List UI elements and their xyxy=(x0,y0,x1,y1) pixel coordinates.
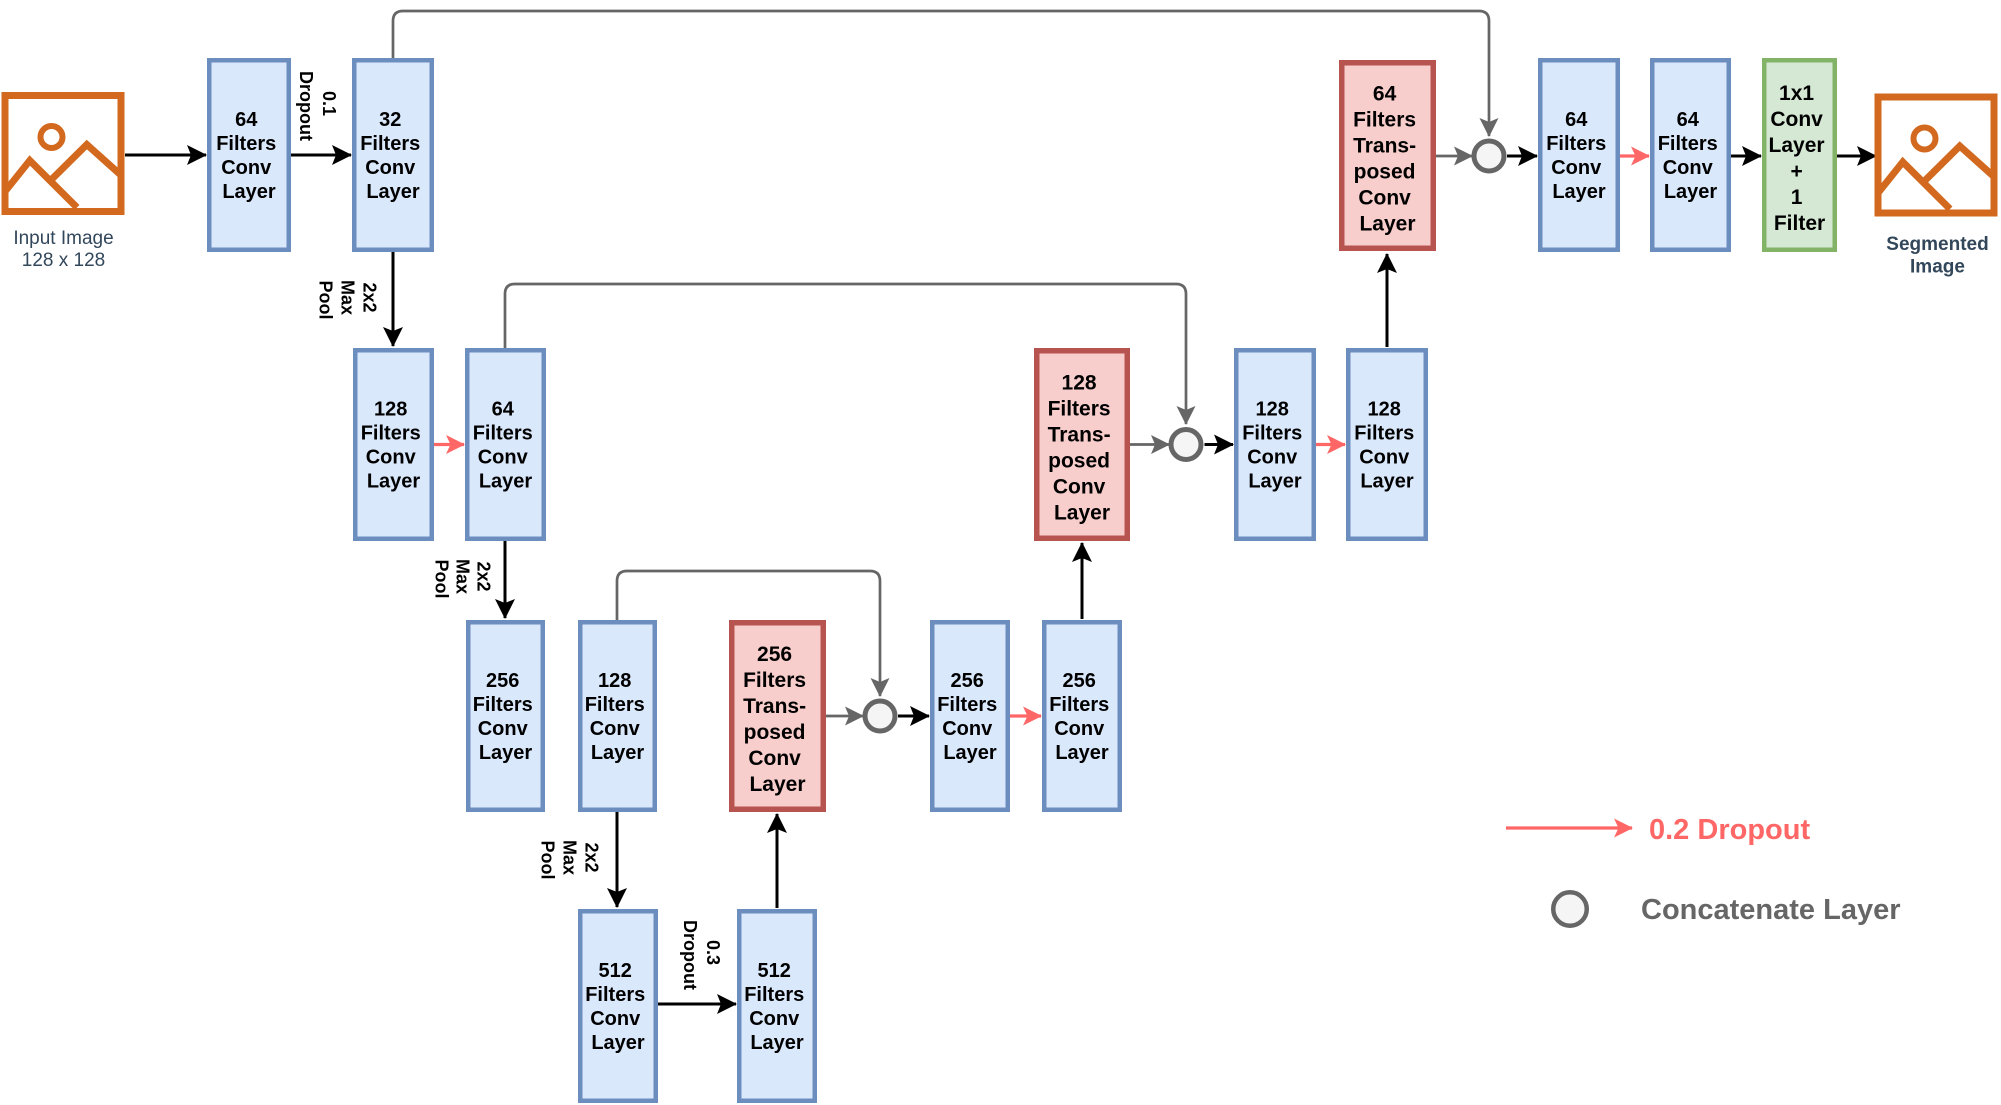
svg-text:2x2 Max Pool: 2x2 Max Pool xyxy=(538,840,602,880)
svg-text:0.2 Dropout: 0.2 Dropout xyxy=(1649,814,1810,846)
svg-text:Concatenate Layer: Concatenate Layer xyxy=(1641,894,1901,926)
svg-text:2x2 Max Pool: 2x2 Max Pool xyxy=(432,559,494,599)
svg-text:Segmented: Segmented xyxy=(1886,234,1988,255)
svg-text:128 x 128: 128 x 128 xyxy=(22,250,105,271)
svg-text:Image: Image xyxy=(1910,257,1965,278)
svg-text:2x2 Max Pool: 2x2 Max Pool xyxy=(316,280,380,320)
svg-text:Input Image: Input Image xyxy=(13,228,113,249)
